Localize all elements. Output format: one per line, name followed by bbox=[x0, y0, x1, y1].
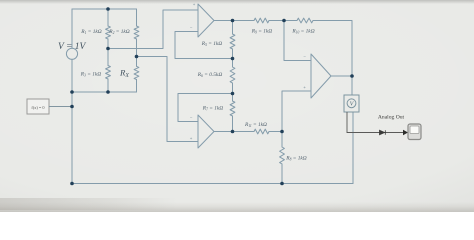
svg-text:R8 = 1kΩ: R8 = 1kΩ bbox=[285, 156, 307, 162]
signal connector marker bbox=[380, 130, 386, 135]
op-amp U2 bbox=[198, 115, 214, 148]
resistor R3 bbox=[106, 66, 111, 79]
wire right bridge column bbox=[136, 9, 138, 92]
wire bridge bottom rail bbox=[72, 80, 137, 93]
svg-text:R10 = 1kΩ: R10 = 1kΩ bbox=[291, 29, 314, 35]
resistor R11 bbox=[254, 129, 269, 134]
resistor R9 bbox=[254, 18, 269, 23]
wire node to op-amp U3 + input bbox=[282, 91, 311, 132]
svg-text:+: + bbox=[303, 85, 306, 90]
voltage source V1 circle bbox=[66, 48, 77, 59]
svg-text:R2 = 1kΩ: R2 = 1kΩ bbox=[108, 29, 130, 35]
wire sensor output signal line bbox=[347, 112, 403, 133]
wire top rail of bridge bbox=[72, 8, 137, 10]
svg-text:R5 = 1kΩ: R5 = 1kΩ bbox=[201, 41, 223, 47]
wire bottom summing line bbox=[233, 131, 283, 133]
wire gain chain vertical bbox=[232, 21, 234, 132]
svg-text:R6 = 0.5kΩ: R6 = 0.5kΩ bbox=[197, 72, 223, 78]
wire bridge right node to op-amp U2 + input bbox=[137, 57, 199, 142]
wire top summing line bbox=[233, 21, 353, 77]
resistor R7 bbox=[230, 101, 235, 116]
wire node down to ground through R8 bbox=[281, 132, 283, 184]
op-amp U3 bbox=[311, 54, 331, 98]
svg-text:+: + bbox=[193, 2, 196, 7]
svg-text:R3 = 1kΩ: R3 = 1kΩ bbox=[80, 72, 102, 78]
wire sensor - terminal to ground rail bbox=[352, 112, 354, 184]
svg-text:−: − bbox=[190, 25, 193, 30]
svg-text:RX: RX bbox=[119, 68, 129, 79]
wire U2 feedback from gain node B to - input bbox=[178, 94, 233, 122]
wire node to op-amp U3 - input bbox=[284, 21, 311, 61]
svg-text:R11 = 1kΩ: R11 = 1kΩ bbox=[244, 122, 267, 128]
resistor Rx bbox=[134, 66, 139, 79]
Analog Out scope block bbox=[408, 124, 421, 140]
wire U1 feedback from gain node A to - input bbox=[175, 32, 233, 59]
voltage sensor VM1 bbox=[344, 95, 359, 112]
svg-text:R1 = 1kΩ: R1 = 1kΩ bbox=[80, 29, 102, 35]
wire U1 output bbox=[214, 20, 233, 22]
svg-text:Analog Out: Analog Out bbox=[378, 115, 405, 121]
wire U3 output to sensor bbox=[331, 76, 352, 95]
wire bridge left node to op-amp U1 + input bbox=[108, 10, 198, 49]
resistor R5 bbox=[230, 34, 235, 49]
svg-text:R9 = 1kΩ: R9 = 1kΩ bbox=[251, 29, 273, 35]
svg-text:R7 = 1kΩ: R7 = 1kΩ bbox=[202, 106, 224, 112]
solver block f(x)=0 bbox=[27, 99, 49, 114]
svg-text:−: − bbox=[303, 54, 306, 59]
wire solver to node bbox=[49, 106, 72, 108]
resistor R6 gain bbox=[230, 67, 235, 83]
op-amp U1 bbox=[198, 4, 214, 37]
resistor R1 bbox=[106, 26, 111, 39]
wire left bridge column bbox=[107, 9, 109, 92]
wire left column from top rail to source + bbox=[71, 9, 73, 48]
svg-text:f(x) = 0: f(x) = 0 bbox=[31, 105, 44, 110]
resistor R8 bbox=[280, 147, 285, 164]
svg-text:V = 1V: V = 1V bbox=[58, 42, 87, 52]
wire U2 output bbox=[214, 131, 233, 133]
svg-text:+: + bbox=[190, 136, 193, 141]
wire ground rail bbox=[72, 183, 353, 185]
arrowhead into Analog Out bbox=[403, 130, 408, 135]
resistor R2 bbox=[134, 26, 139, 39]
resistor R10 feedback bbox=[297, 18, 313, 23]
wire left column from source - down to bottom ground rail bbox=[71, 59, 73, 183]
svg-text:−: − bbox=[190, 115, 193, 120]
